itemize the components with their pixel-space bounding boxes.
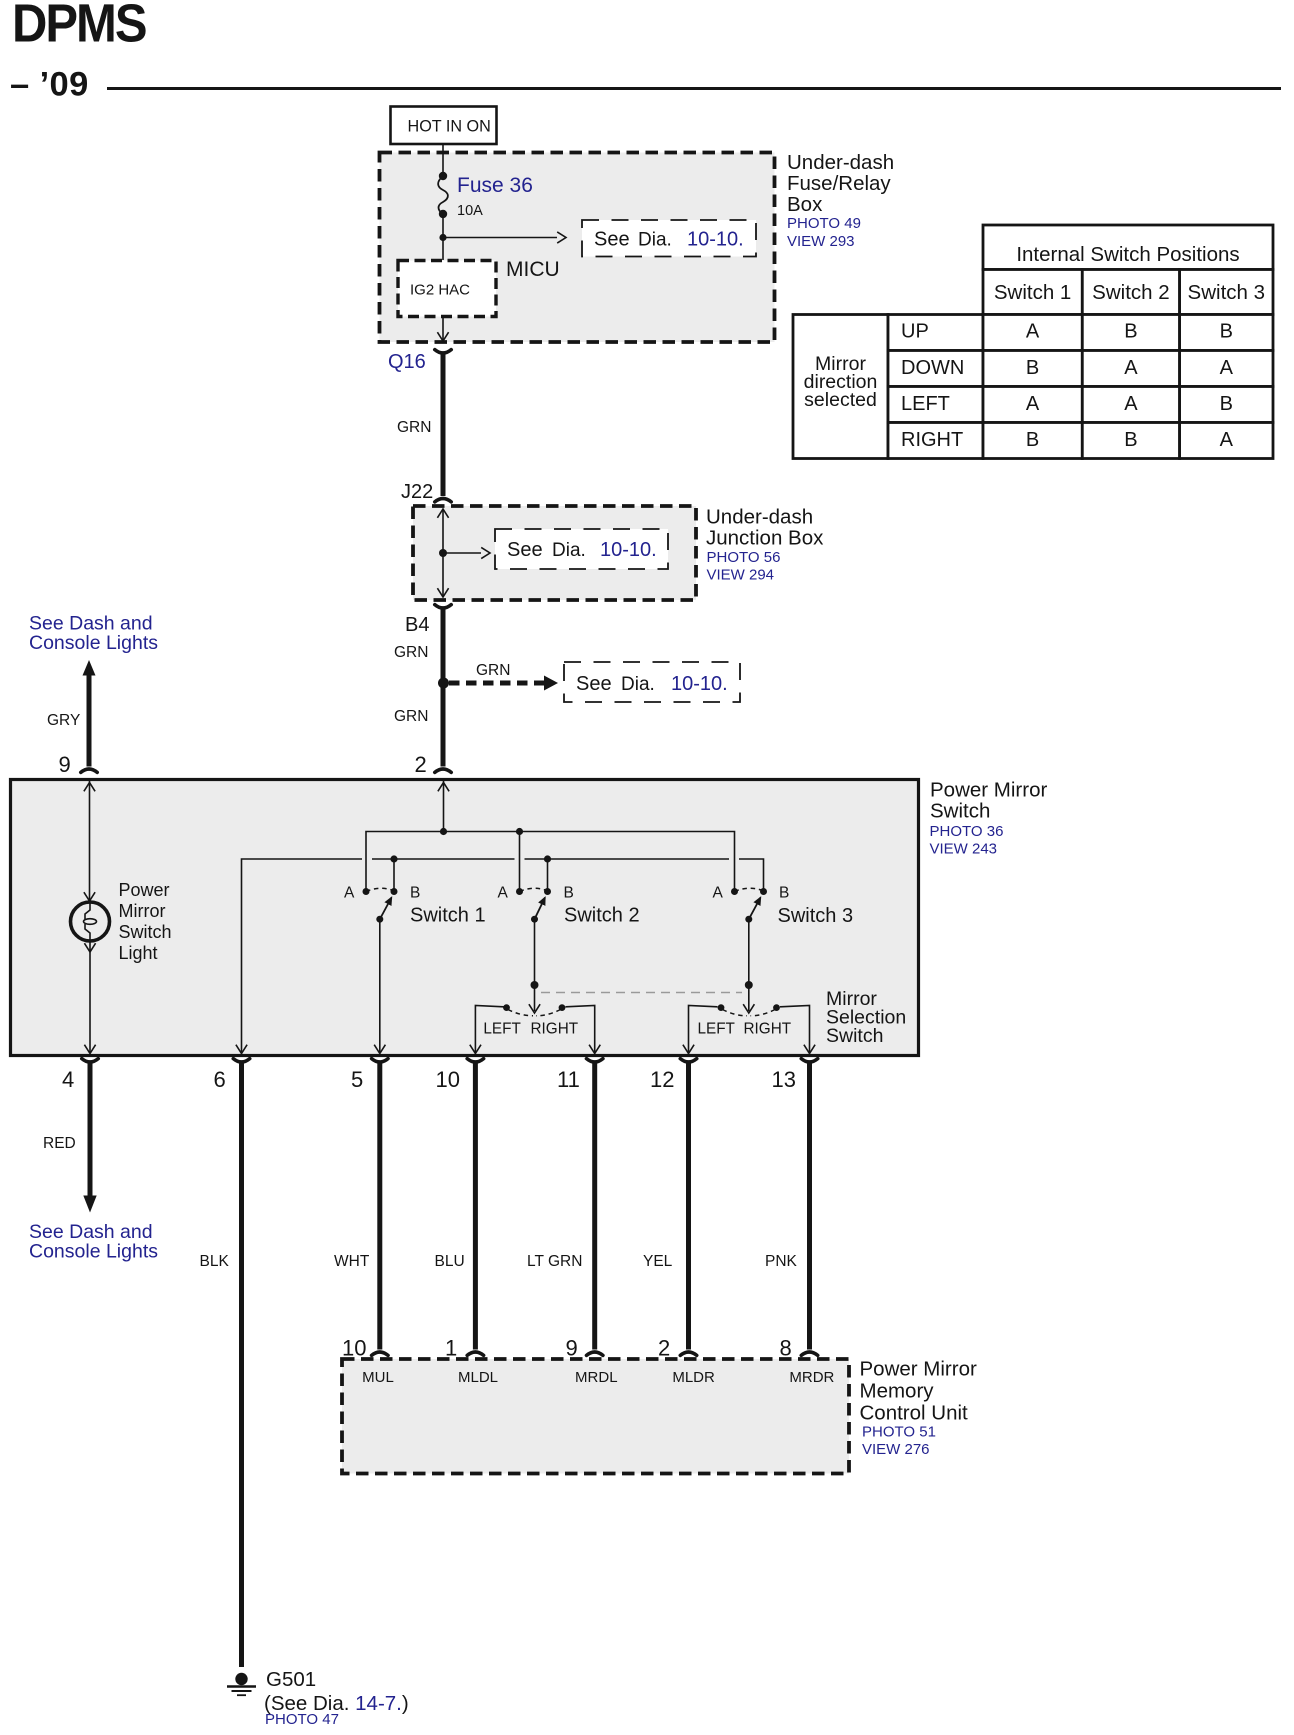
lamp power mirror switch light (71, 902, 110, 941)
svg-text:HOT IN ON: HOT IN ON (408, 118, 491, 136)
svg-text:8: 8 (780, 1336, 792, 1361)
svg-text:10-10.: 10-10. (687, 229, 744, 251)
connector memory pin 10 (372, 1352, 388, 1355)
lamp filament (84, 903, 97, 940)
arrowhead down at pin 13 (804, 1045, 815, 1054)
svg-text:RIGHT: RIGHT (901, 429, 963, 451)
node bus A switch2 (516, 828, 523, 835)
wire PNK pin 13 (807, 1063, 812, 1350)
connector memory pin 9 (587, 1352, 603, 1355)
SECTION: bottom (29, 1063, 977, 1729)
arrowhead down at pin 10 (470, 1045, 481, 1054)
arrowhead down selection pole left (529, 1004, 540, 1013)
svg-text:GRY: GRY (47, 712, 80, 729)
table row DOWN (888, 351, 1273, 387)
svg-text:1: 1 (445, 1336, 457, 1361)
svg-text:Console Lights: Console Lights (29, 1241, 158, 1263)
svg-text:PHOTO 36: PHOTO 36 (930, 823, 1004, 840)
svg-text:Switch 3: Switch 3 (778, 905, 854, 927)
connector pin 12 (680, 1059, 696, 1062)
label HOT IN ON (391, 107, 497, 145)
arrowhead down at pin 4 (84, 1045, 95, 1054)
bus B wire segment 3 (525, 858, 730, 860)
svg-text:VIEW 276: VIEW 276 (862, 1441, 930, 1458)
connector pin 6 (233, 1059, 249, 1062)
svg-text:A: A (713, 885, 724, 902)
svg-text:Memory: Memory (860, 1380, 935, 1403)
svg-text:Box: Box (787, 193, 823, 216)
svg-text:Fuse 36: Fuse 36 (457, 174, 533, 197)
svg-text:GRN: GRN (394, 644, 428, 661)
bus B wire segment 1 (242, 859, 363, 1053)
label see dash and console lights (bottom) (29, 1221, 158, 1263)
switch 1 (344, 885, 486, 927)
svg-text:Switch 3: Switch 3 (1188, 281, 1265, 304)
svg-text:B: B (1026, 357, 1039, 379)
svg-text:9: 9 (59, 752, 71, 777)
arrowhead down at lamp top (84, 892, 95, 901)
svg-text:GRN: GRN (476, 662, 510, 679)
svg-text:Power Mirror: Power Mirror (930, 779, 1047, 802)
arrowhead down at pin 5 (374, 1045, 385, 1054)
wire switch3 common down (748, 919, 750, 1011)
svg-text:LEFT: LEFT (698, 1021, 735, 1038)
svg-text:5: 5 (351, 1067, 363, 1092)
connector pin 9 top (81, 769, 97, 772)
svg-text:BLU: BLU (435, 1253, 465, 1270)
svg-text:A: A (1220, 357, 1234, 379)
wire pin 2 riser (443, 780, 445, 832)
svg-text:Switch: Switch (930, 800, 990, 823)
node selection link right (745, 981, 753, 989)
connector pin 11 (587, 1059, 603, 1062)
svg-text:RED: RED (43, 1135, 76, 1152)
table mirror direction selected cell (793, 315, 888, 459)
connector pin 10 (467, 1059, 483, 1062)
wire pin 9 to lamp (89, 780, 91, 902)
svg-text:2: 2 (415, 752, 427, 777)
svg-text:B: B (1124, 429, 1137, 451)
svg-text:Control Unit: Control Unit (860, 1402, 969, 1425)
svg-text:PNK: PNK (765, 1253, 798, 1270)
svg-text:Power Mirror: Power Mirror (860, 1358, 977, 1381)
svg-text:Dia.: Dia. (638, 230, 672, 251)
connector memory pin 2 (680, 1352, 696, 1355)
svg-text:PHOTO 47: PHOTO 47 (265, 1711, 339, 1728)
svg-text:Switch: Switch (119, 922, 172, 942)
node bus B switch2 (544, 855, 551, 862)
wire riser B1 (393, 859, 395, 889)
svg-text:– ’09: – ’09 (10, 66, 89, 104)
connector memory pin 1 (467, 1352, 483, 1355)
svg-text:13: 13 (772, 1067, 796, 1092)
SECTION: switchbox (11, 779, 1048, 1093)
svg-text:Dia.: Dia. (552, 540, 586, 561)
svg-text:Light: Light (119, 943, 158, 963)
power mirror switch box (11, 780, 919, 1056)
svg-text:VIEW 293: VIEW 293 (787, 233, 855, 250)
svg-text:Switch: Switch (826, 1025, 883, 1047)
IG2 HAC box (398, 261, 496, 317)
svg-text:MRDR: MRDR (789, 1369, 834, 1386)
connector pin 13 (801, 1059, 817, 1062)
node junction box tap (439, 549, 447, 557)
svg-text:4: 4 (62, 1067, 74, 1092)
svg-text:B: B (1124, 321, 1137, 343)
node branch to see dia (439, 234, 446, 241)
svg-text:PHOTO 51: PHOTO 51 (862, 1424, 936, 1441)
svg-text:BLK: BLK (200, 1253, 230, 1270)
svg-text:Q16: Q16 (388, 351, 426, 373)
svg-text:B: B (779, 885, 789, 902)
wire switch2 common down (534, 919, 536, 1011)
table switch 1 header cell (983, 270, 1082, 315)
svg-text:GRN: GRN (394, 708, 428, 725)
wire tap to see dia arrow (443, 552, 481, 554)
svg-text:MRDL: MRDL (575, 1369, 618, 1386)
switch 3 (713, 885, 854, 928)
svg-text:WHT: WHT (334, 1253, 370, 1270)
node bus B switch1 (390, 855, 397, 862)
svg-text:LEFT: LEFT (483, 1021, 520, 1038)
wire GRN B4 to switch box (441, 609, 446, 767)
wire RED pin 4 (88, 1063, 93, 1199)
svg-text:B: B (1026, 429, 1039, 451)
svg-text:10-10.: 10-10. (671, 673, 728, 695)
connector pin 2 top (435, 769, 451, 772)
svg-text:9: 9 (566, 1336, 578, 1361)
svg-text:Fuse/Relay: Fuse/Relay (787, 172, 891, 195)
wire branch to see dia arrow (443, 237, 557, 239)
svg-text:A: A (1124, 357, 1138, 379)
svg-text:B: B (1220, 321, 1233, 343)
svg-text:A: A (1220, 429, 1234, 451)
under-dash junction box (413, 506, 696, 600)
svg-text:DOWN: DOWN (901, 357, 964, 379)
arrowhead down at pin 11 (589, 1045, 600, 1054)
wire BLU pin 10 (473, 1063, 478, 1350)
svg-text:B: B (1220, 393, 1233, 415)
svg-text:GRN: GRN (397, 419, 431, 436)
svg-text:Switch 1: Switch 1 (410, 905, 486, 927)
svg-text:B4: B4 (405, 614, 429, 636)
ground G501 (227, 1673, 256, 1695)
svg-text:MLDL: MLDL (458, 1369, 498, 1386)
label power mirror switch light (119, 880, 172, 963)
arrowhead down selection pole right (743, 1004, 754, 1013)
see dia 10-10 box (top) (582, 220, 756, 257)
node selection link left (531, 981, 539, 989)
bus B wire segment 2 (372, 858, 515, 860)
label see dash and console lights (top) (29, 613, 158, 655)
wire IG2 HAC to box edge (442, 317, 444, 342)
arrowhead down at pin 6 (236, 1045, 247, 1054)
power mirror memory control unit box (342, 1359, 849, 1474)
svg-text:UP: UP (901, 321, 929, 343)
arrow down to dash lights (83, 1196, 96, 1213)
arrowhead down below lamp (84, 943, 95, 952)
label under-dash fuse/relay box (787, 151, 894, 250)
svg-text:12: 12 (650, 1067, 674, 1092)
svg-text:10: 10 (436, 1067, 460, 1092)
svg-text:MLDR: MLDR (672, 1369, 715, 1386)
node GRN tap (438, 678, 449, 689)
table row RIGHT (888, 423, 1273, 459)
switch 2 (498, 885, 640, 927)
svg-text:Under-dash: Under-dash (787, 151, 894, 174)
arrowhead right into see dia box (557, 232, 566, 243)
svg-text:Switch 2: Switch 2 (564, 905, 640, 927)
label under-dash junction box (706, 506, 824, 584)
wire fuse to branch node (442, 214, 444, 260)
svg-text:PHOTO 56: PHOTO 56 (707, 549, 781, 566)
svg-text:PHOTO 49: PHOTO 49 (787, 215, 861, 232)
selection switch left contact LEFT (475, 1004, 533, 1053)
svg-text:See: See (507, 539, 543, 561)
wire riser A2 (519, 832, 521, 889)
svg-text:DPMS: DPMS (12, 0, 146, 53)
svg-text:A: A (1026, 393, 1040, 415)
under-dash fuse/relay box (380, 153, 775, 343)
svg-text:MICU: MICU (506, 258, 560, 281)
svg-text:YEL: YEL (643, 1253, 673, 1270)
svg-text:10: 10 (342, 1336, 366, 1361)
svg-text:LT GRN: LT GRN (527, 1253, 582, 1270)
svg-text:A: A (1124, 393, 1138, 415)
svg-text:RIGHT: RIGHT (531, 1021, 579, 1038)
wire lamp to pin 4 (89, 941, 91, 1053)
header rule (107, 87, 1281, 90)
wire BLK pin 6 (239, 1063, 244, 1668)
svg-text:selected: selected (804, 389, 877, 411)
wire GRY (87, 674, 92, 767)
connector B4 (435, 605, 451, 608)
node fuse bottom (439, 210, 447, 218)
arrow up to dash lights (83, 660, 96, 676)
arrowhead filled right on GRN branch (544, 676, 558, 691)
connector Q16 (435, 350, 451, 353)
svg-text:A: A (498, 885, 509, 902)
label power mirror switch (930, 779, 1048, 858)
svg-text:B: B (564, 885, 574, 902)
SECTION: fusebox (380, 107, 895, 343)
wire LT GRN pin 11 (592, 1063, 597, 1350)
svg-text:Switch 2: Switch 2 (1092, 281, 1169, 304)
wire WHT pin 5 (377, 1063, 382, 1350)
svg-text:RIGHT: RIGHT (744, 1021, 792, 1038)
arrowhead up at pin 2 (438, 783, 449, 792)
arrowhead down at fuse box edge (437, 332, 448, 341)
connector pin 5 (372, 1059, 388, 1062)
wire GRN Q16 to J22 (441, 354, 446, 497)
svg-text:6: 6 (214, 1067, 226, 1092)
selection switch right contact RIGHT (744, 1004, 810, 1053)
table switch 2 header cell (1082, 270, 1179, 315)
arrowhead down at pin 12 (683, 1045, 694, 1054)
SECTION: middle (29, 350, 824, 777)
fuse F36 element (438, 176, 448, 214)
see dia 10-10 box (junction) (495, 529, 668, 569)
arrowhead right into see dia box (junction) (481, 547, 490, 558)
node bus A pin2 (440, 828, 447, 835)
connector J22 (435, 499, 451, 502)
svg-text:Switch 1: Switch 1 (994, 281, 1071, 304)
bus A wire (366, 832, 735, 889)
arrowhead up at pin 9 (84, 783, 95, 792)
svg-text:Dia.: Dia. (621, 674, 655, 695)
table switch 3 header cell (1180, 270, 1273, 315)
svg-text:10A: 10A (457, 203, 483, 219)
SECTION: header (10, 0, 1281, 104)
svg-text:VIEW 294: VIEW 294 (707, 567, 775, 584)
arrowhead down at junction box bottom (437, 588, 448, 597)
arrowhead up at junction box top (437, 509, 448, 518)
svg-text:A: A (1026, 321, 1040, 343)
wire dashed GRN branch (449, 681, 546, 686)
connector memory pin 8 (801, 1352, 817, 1355)
svg-text:B: B (410, 885, 420, 902)
svg-text:11: 11 (557, 1067, 580, 1092)
selection switch left contact RIGHT (531, 1004, 595, 1053)
svg-text:Mirror: Mirror (119, 901, 166, 921)
table internal switch positions header cell (983, 225, 1273, 270)
svg-text:A: A (344, 885, 355, 902)
svg-text:LEFT: LEFT (901, 393, 950, 415)
wire riser B2 (547, 859, 549, 889)
svg-text:VIEW 243: VIEW 243 (930, 841, 998, 858)
svg-text:Under-dash: Under-dash (706, 506, 813, 529)
wire through junction box (442, 510, 444, 596)
svg-text:10-10.: 10-10. (600, 539, 657, 561)
svg-text:2: 2 (658, 1336, 670, 1361)
svg-text:MUL: MUL (362, 1369, 394, 1386)
svg-text:Console Lights: Console Lights (29, 632, 158, 654)
wire switch1 common to pin 5 (379, 919, 381, 1053)
selection switch right contact LEFT (689, 1004, 748, 1053)
svg-text:Power: Power (119, 880, 170, 900)
connector pin 4 (82, 1059, 98, 1062)
label power mirror memory control unit (860, 1358, 977, 1459)
svg-text:See: See (576, 673, 612, 695)
svg-text:G501: G501 (266, 1668, 316, 1691)
label mirror selection switch (826, 988, 906, 1047)
svg-text:Internal Switch Positions: Internal Switch Positions (1016, 243, 1239, 266)
see dia 10-10 box (GRN branch) (564, 662, 740, 702)
svg-text:J22: J22 (401, 481, 433, 503)
bus B wire segment 4 (739, 859, 764, 889)
table row UP (888, 315, 1273, 351)
wire from HOT IN ON into fuse box (442, 144, 444, 176)
svg-text:Junction Box: Junction Box (706, 527, 824, 550)
svg-text:See: See (594, 229, 630, 251)
wire YEL pin 12 (686, 1063, 691, 1350)
svg-text:IG2 HAC: IG2 HAC (410, 282, 470, 299)
node fuse top (439, 172, 447, 180)
SECTION: table (793, 225, 1273, 459)
mechanical link dashed (541, 992, 742, 994)
table row LEFT (888, 387, 1273, 423)
